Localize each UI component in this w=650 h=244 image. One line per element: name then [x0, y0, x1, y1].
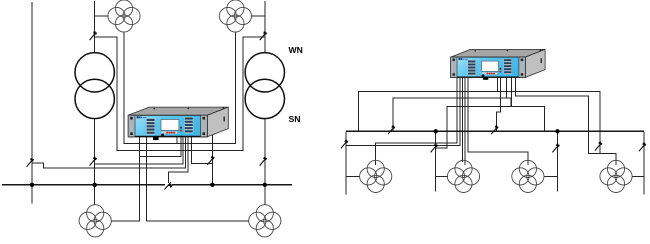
wire B grid-to-grid loop — [124, 32, 235, 144]
motor M1 — [79, 205, 111, 237]
wire fan V2a control — [462, 77, 464, 162]
wire fan V3 control — [468, 77, 528, 165]
breaker Q6 SN bus — [164, 182, 171, 189]
wire device pin to W1 — [497, 77, 499, 91]
op device U1 — [128, 107, 228, 137]
wire right transformer primary vertical — [264, 1, 266, 53]
wire V1 device to motor M1 — [111, 137, 139, 221]
transformer T2 — [245, 53, 284, 119]
wire device supply drop to SN bus — [211, 135, 213, 185]
wire W1 bus sense left — [358, 91, 600, 153]
breaker K5 W2 at bus — [388, 125, 395, 134]
wire stub F4 to fan — [632, 175, 644, 177]
breaker K6 pin drop at bus — [491, 125, 498, 134]
wire device pin P5 to supply drop — [191, 137, 212, 164]
breaker Q4 transformer T1 secondary — [90, 157, 97, 166]
op device U2 — [451, 49, 546, 77]
fan motor FM4 — [600, 160, 632, 192]
breaker K4 feeder F4 — [639, 142, 646, 151]
connector box below U2 — [483, 77, 488, 80]
breaker Q1 left busbar — [27, 158, 34, 167]
wire device pin to Y line — [511, 77, 513, 106]
wire V2 device to motor M2 — [147, 137, 250, 221]
fan motor FM1 — [360, 160, 392, 192]
transformer T1 — [75, 53, 114, 119]
wire left busbar stub below SN bus — [31, 185, 33, 204]
fan motor FM2 — [447, 160, 479, 192]
wire cross line Y to feeders — [436, 106, 545, 148]
wire device pin P0 to B — [176, 137, 178, 144]
grid symbol G1 — [108, 0, 140, 32]
breaker Q2 transformer T1 primary — [90, 31, 97, 40]
wire feeder F3 from bus dot — [557, 131, 559, 191]
breaker Q5 transformer T2 secondary — [260, 157, 267, 166]
wire device pin drop to bus switch — [496, 77, 500, 131]
svg-text:WN: WN — [289, 45, 303, 55]
wire device pin P4 to SN bus switch — [169, 137, 189, 184]
node SN bus — [2, 184, 292, 186]
wire feeder F2 from bus dot — [435, 131, 437, 191]
wire left transformer secondary to SN bus — [94, 119, 96, 185]
wire stub F3 to fan — [544, 175, 558, 177]
wire fan V1 control — [376, 77, 458, 165]
fan motor FM3 — [512, 160, 544, 192]
junction dots SN bus — [30, 183, 267, 187]
wire stub F2 to fan — [436, 175, 448, 177]
wire fan F1 feeder join — [346, 77, 460, 145]
wire stub to grid symbol G1 — [95, 15, 108, 17]
wire feeder F1 from bus end — [345, 131, 347, 194]
node right bus — [346, 130, 644, 132]
wire device pin P2 to transformer branch — [95, 137, 184, 165]
breaker K3 feeder F3 — [552, 144, 559, 153]
wire M2 feeder from bus — [264, 185, 266, 205]
wire device pin to W2 — [506, 77, 508, 98]
svg-text:SN: SN — [289, 114, 301, 124]
wire stub F1 to fan — [346, 175, 360, 177]
wire left transformer primary vertical — [94, 1, 96, 53]
wire fan V4 control — [516, 77, 616, 165]
wire feeder F4 from bus end — [643, 131, 645, 194]
node WN busbar left vertical — [31, 2, 33, 185]
breaker Q3 transformer T2 primary — [260, 31, 267, 40]
breaker Q7 device supply — [207, 156, 214, 165]
wire device pin P3 to left busbar switch — [32, 137, 186, 168]
wire V1 branch to device pin — [140, 137, 181, 157]
wire fan V2b control — [464, 77, 466, 165]
wire A switch-to-switch loop — [95, 37, 265, 150]
breaker K1 feeder F1 — [341, 140, 348, 149]
connector box below U1 — [153, 137, 159, 140]
grid symbol G2 — [219, 0, 251, 32]
wire right transformer secondary to SN bus — [264, 119, 266, 185]
junction dots right bus — [434, 129, 560, 133]
wire W2 bus sense — [393, 98, 511, 131]
breaker K7 W1 drop — [595, 142, 602, 151]
wire M1 feeder from bus — [94, 185, 96, 205]
motor M2 — [249, 205, 281, 237]
wire stub grid symbol G2 — [251, 15, 265, 17]
breaker K2 feeder F2 — [431, 144, 438, 153]
